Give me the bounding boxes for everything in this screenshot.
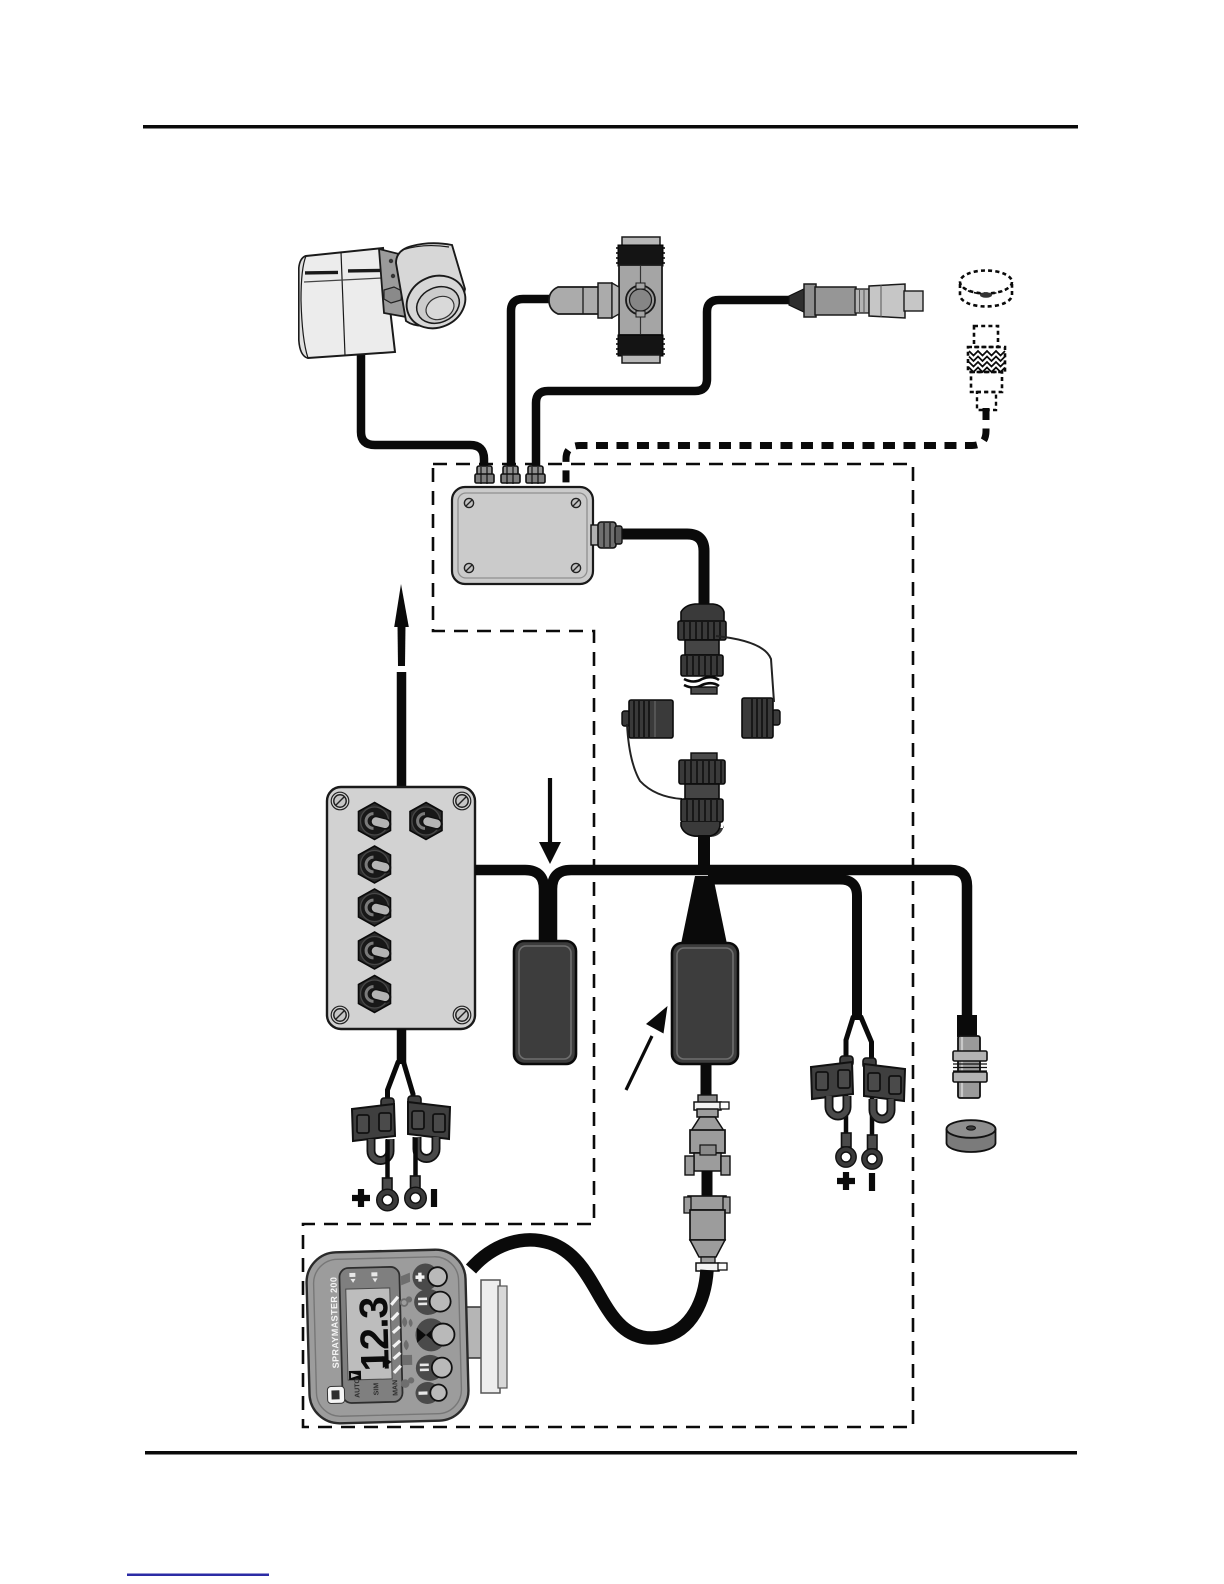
flow meter sensor plug <box>549 283 619 318</box>
wire from boom connector to harness <box>698 835 710 875</box>
wheel magnet <box>947 1120 996 1152</box>
left fuse + wire to ring terminal <box>385 1140 390 1180</box>
junction box <box>452 487 593 584</box>
button - <box>415 1381 447 1404</box>
svg-text:12.3: 12.3 <box>352 1297 398 1372</box>
console cable <box>471 1240 707 1338</box>
harness main wire to speed sensor <box>552 870 967 1020</box>
optional wheel speed sensor (dotted) <box>968 326 1005 410</box>
svg-text:AUTO: AUTO <box>354 1377 362 1397</box>
toggle switch 4 <box>359 932 391 969</box>
top rule <box>143 125 1078 129</box>
optional magnet (dotted) <box>960 271 1012 307</box>
boom connector upper half <box>678 604 726 694</box>
LCD pointer <box>383 1356 392 1368</box>
button auto/till <box>414 1288 451 1315</box>
toggle switch master <box>410 803 442 840</box>
connector link wire <box>702 1171 713 1200</box>
console mounting bracket <box>465 1280 507 1393</box>
left fuse - wire to ring terminal <box>413 1138 418 1178</box>
battery fuse holder - <box>863 1058 905 1119</box>
button master arrows <box>415 1318 455 1352</box>
protective cap left <box>622 700 673 738</box>
right fuse + wire down <box>844 1062 849 1135</box>
right ring terminal + <box>836 1133 856 1167</box>
junction box output wire to boom connector <box>612 534 704 604</box>
harness branch wire to battery <box>708 880 857 1021</box>
diagonal arrow to module <box>626 1006 668 1090</box>
button + <box>412 1263 447 1291</box>
dashed system boundary <box>303 464 913 1427</box>
icon column <box>399 1273 414 1387</box>
harness wire from switch box <box>475 870 544 942</box>
flow meter bottom threaded port <box>616 335 665 363</box>
junction box cable gland 2 <box>501 466 520 484</box>
battery icon <box>349 1371 361 1380</box>
bottom rule <box>145 1451 1077 1455</box>
relay module (left) <box>514 941 576 1064</box>
battery wire split right - <box>861 1016 872 1064</box>
battery fuse holder + <box>811 1056 853 1116</box>
right ring terminal - <box>862 1135 882 1169</box>
flow meter top threaded port <box>616 245 665 266</box>
toggle switch 5 <box>359 976 391 1013</box>
right fuse - wire down <box>870 1064 875 1137</box>
wire from switch box up <box>397 672 407 790</box>
svg-text:SIM: SIM <box>373 1383 380 1396</box>
toggle switch 3 <box>359 889 391 926</box>
toggle switch 1 <box>359 803 391 840</box>
console LCD <box>346 1288 392 1380</box>
junction box right cable gland <box>591 522 622 548</box>
boom connector lower half <box>679 753 725 837</box>
switch box power cable <box>397 1029 407 1064</box>
plus label right <box>837 1172 855 1190</box>
wire from control valve to junction box <box>361 352 484 472</box>
button test <box>416 1354 453 1381</box>
left fuse holder - <box>408 1096 450 1159</box>
pressure sensor connector <box>789 284 923 318</box>
LCD header marks <box>349 1273 355 1283</box>
junction down arrow <box>539 778 561 864</box>
motorized control valve body <box>299 248 395 358</box>
console panel <box>339 1267 403 1404</box>
junction box cable gland 3 <box>526 466 545 484</box>
speed sensor <box>953 1015 987 1098</box>
upward arrow to junction box <box>394 584 409 666</box>
plus label left <box>352 1189 370 1207</box>
battery wire split right + <box>846 1016 854 1064</box>
switch box power wire + <box>388 1061 399 1108</box>
brand logo <box>327 1386 344 1403</box>
control valve mounting bracket <box>379 249 412 318</box>
white scale ticks <box>391 1297 401 1373</box>
footer link line <box>127 1574 269 1577</box>
dashed cable from optional sensor to junction box <box>566 408 986 486</box>
console connector lower half <box>684 1196 730 1271</box>
protective cap right <box>742 698 780 738</box>
taper to flow control module <box>681 876 727 944</box>
control valve actuator cylinder <box>396 243 474 337</box>
left fuse holder + <box>352 1098 395 1161</box>
wire from flow meter to junction box <box>511 299 552 472</box>
junction box cable gland 1 <box>475 466 494 484</box>
toggle switch 2 <box>359 846 391 883</box>
flow control module (right) <box>672 943 738 1064</box>
minus label left <box>431 1189 437 1207</box>
flow meter body <box>619 265 662 335</box>
cap tether wires <box>716 636 774 702</box>
minus label right <box>869 1173 875 1191</box>
boom switch box <box>327 787 475 1029</box>
svg-text:MAN: MAN <box>392 1380 399 1396</box>
switch box power wire - <box>404 1062 414 1106</box>
console connector upper half <box>685 1095 730 1175</box>
module output wire <box>701 1064 712 1100</box>
flow meter top cap <box>622 237 660 246</box>
wire from pressure sensor to junction box <box>536 300 791 472</box>
spraymaster console <box>306 1249 469 1424</box>
